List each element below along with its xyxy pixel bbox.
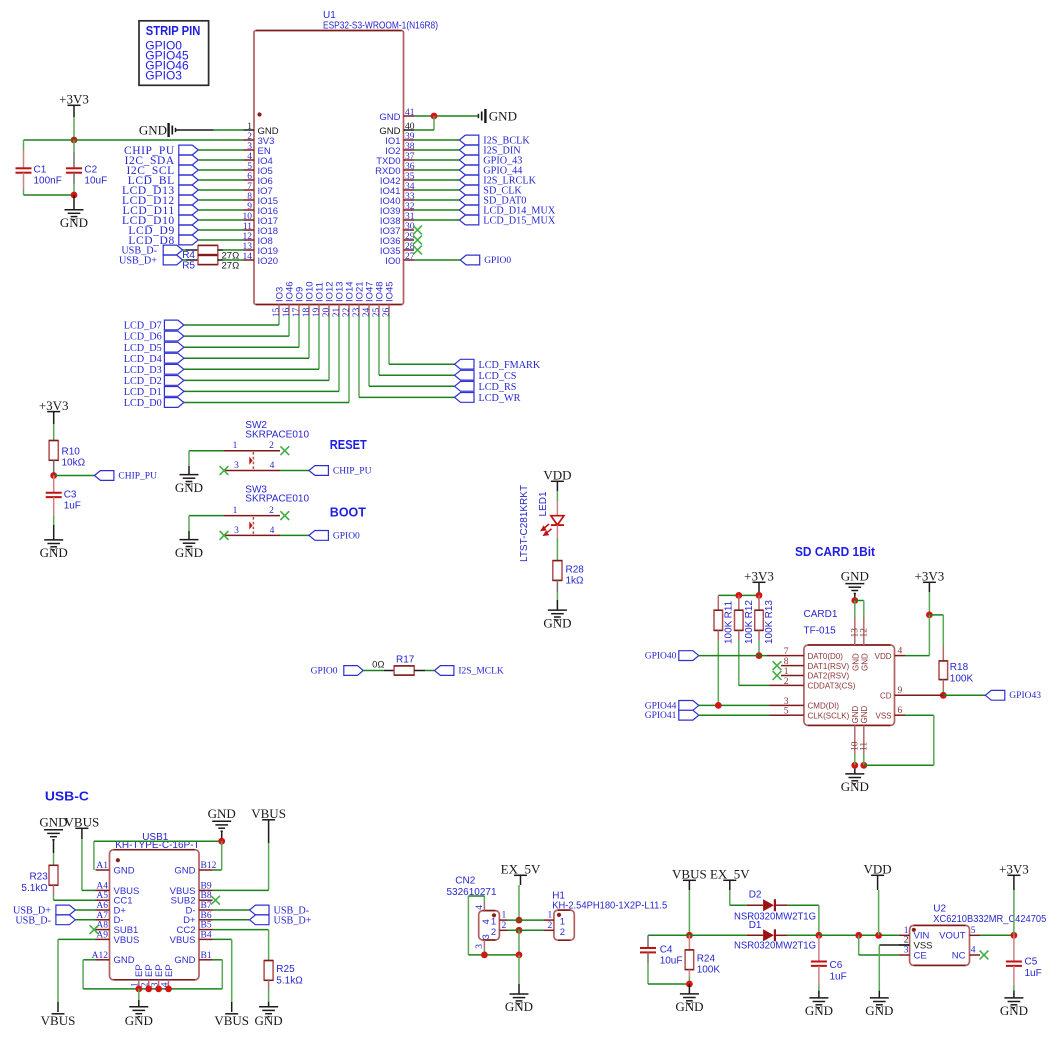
svg-text:LCD_D2: LCD_D2 — [124, 376, 162, 387]
svg-text:12: 12 — [243, 232, 253, 242]
svg-text:B4: B4 — [201, 930, 212, 940]
wire U1 pin 15 to LCD_D7 — [278, 316, 280, 326]
svg-text:4: 4 — [270, 461, 275, 471]
svg-text:SD CARD 1Bit: SD CARD 1Bit — [795, 545, 876, 559]
wire USB1 A9 to VBUS bottom — [58, 938, 96, 940]
svg-text:DAT0(D0): DAT0(D0) — [808, 652, 844, 661]
U2 pin 2 VSS — [899, 944, 910, 946]
global label CHIP_PU (R10 node) — [94, 471, 114, 481]
junction dot rail/R12 — [735, 592, 742, 599]
wire CARD1 CD to GPIO43 — [940, 694, 943, 696]
wire U1 to SD_CLK — [414, 189, 459, 191]
svg-text:3: 3 — [234, 461, 239, 471]
global label GPIO_43 — [459, 155, 479, 165]
svg-text:GND: GND — [841, 569, 869, 584]
svg-text:R17: R17 — [396, 654, 415, 665]
resistor R4 27ohm — [183, 249, 186, 251]
svg-text:GND: GND — [174, 955, 195, 966]
svg-text:17: 17 — [292, 307, 302, 317]
junction dot VBUS/D1/C4/R24 — [686, 932, 693, 939]
U1 pin 25 IO48 (bottom) — [378, 305, 380, 316]
global label LCD_D5 — [164, 342, 184, 352]
wire U1 pin 20 to LCD_D2 — [328, 316, 330, 381]
wire LCD_D13 to U1 pin 7 — [198, 189, 243, 191]
wire U1 to LCD_D14_MUX — [414, 209, 459, 211]
global label LCD_D0 — [164, 398, 184, 408]
bottom rail EP/GND — [83, 988, 222, 990]
svg-text:VBUS: VBUS — [65, 815, 100, 830]
svg-text:4: 4 — [475, 905, 485, 910]
svg-text:6: 6 — [247, 172, 252, 182]
svg-text:100K: 100K — [697, 965, 721, 976]
svg-text:GPIO40: GPIO40 — [645, 652, 677, 662]
resistor R24 100K — [688, 935, 690, 950]
svg-text:ESP32-S3-WROOM-1(N16R8): ESP32-S3-WROOM-1(N16R8) — [323, 20, 438, 31]
svg-text:4: 4 — [247, 152, 252, 162]
U1 pin 27 IO0 (right) — [404, 259, 415, 261]
resistor R25 5.1k — [264, 961, 273, 981]
svg-text:IO0: IO0 — [385, 256, 400, 267]
wire pullup rail — [718, 594, 759, 596]
svg-text:A9: A9 — [96, 930, 108, 940]
ground GND (R24) — [688, 984, 690, 994]
svg-text:LCD_WR: LCD_WR — [479, 393, 521, 404]
global label LCD_D9 -> U1 pin 11 — [179, 225, 199, 235]
global label USB_D+ (B6) — [250, 915, 270, 925]
wire LCD_D8 to U1 pin 12 — [198, 239, 243, 241]
wire U1 to I2S_BCLK — [414, 139, 459, 141]
svg-text:GND: GND — [39, 815, 67, 830]
svg-text:C6: C6 — [830, 960, 843, 971]
CARD1 pin 8 DAT1(RSV) — [790, 665, 804, 667]
svg-text:1: 1 — [904, 926, 909, 936]
svg-text:GPIO43: GPIO43 — [1009, 691, 1041, 701]
U2 pin 4 NC — [970, 954, 981, 956]
svg-text:D2: D2 — [749, 889, 762, 900]
ground GND (SW2) — [180, 475, 199, 485]
svg-text:1: 1 — [502, 911, 507, 921]
wire VBUS to USB1 B9 — [213, 889, 269, 891]
wire CN2 pin1 to H1 pin1 — [508, 919, 544, 921]
svg-text:LCD_D15_MUX: LCD_D15_MUX — [483, 216, 556, 227]
junction dot CN2 pin3/rail — [481, 952, 488, 959]
CARD1 pin 11 GND (bottom) — [863, 725, 865, 754]
svg-text:11: 11 — [859, 742, 869, 751]
wire R23 to USB1 CC1 — [54, 899, 96, 901]
svg-text:VBUS: VBUS — [170, 935, 196, 946]
USB1 pin A6 D+ — [96, 909, 110, 911]
global label GPIO0 -> U1 pin27 — [460, 255, 480, 265]
U1 pin 18 IO10 (bottom) — [308, 305, 310, 316]
svg-text:C4: C4 — [660, 945, 673, 956]
svg-text:22: 22 — [342, 307, 352, 317]
junction dot EP4 — [165, 986, 172, 993]
USB1 pin A1 GND — [96, 869, 110, 871]
ground GND (R28) — [548, 610, 567, 620]
svg-text:VDD: VDD — [875, 652, 892, 661]
svg-text:2: 2 — [560, 927, 565, 938]
junction dot C1/C2/GND — [71, 192, 78, 199]
wire USB1 B1 to bottom rail — [213, 959, 223, 961]
svg-text:38: 38 — [405, 142, 415, 152]
svg-text:CLK(SCLK): CLK(SCLK) — [808, 711, 850, 720]
global label GPIO43 — [985, 690, 1005, 700]
U1 pin 4 IO4 (left) — [244, 159, 255, 161]
global label CHIP_PU (SW2) — [309, 466, 329, 476]
svg-text:GND: GND — [40, 545, 68, 560]
global label LCD_D10 -> U1 pin 10 — [179, 215, 199, 225]
svg-text:VBUS: VBUS — [214, 1013, 249, 1028]
USB1 pin EP1 — [138, 980, 140, 989]
svg-text:1: 1 — [233, 506, 238, 516]
wire USB1 A1 to top GND — [93, 841, 95, 870]
svg-text:GND: GND — [114, 955, 135, 966]
global label LCD_CS — [455, 370, 475, 380]
wire U1 to LCD_CS — [378, 316, 380, 376]
svg-text:2: 2 — [904, 936, 909, 946]
svg-text:25: 25 — [372, 307, 382, 317]
svg-text:GND: GND — [805, 1003, 833, 1018]
junction dot D1/D2/C6 VDD node — [816, 932, 823, 939]
USB1 pin B12 GND — [199, 869, 213, 871]
svg-text:100K: 100K — [744, 620, 755, 644]
svg-text:1uF: 1uF — [64, 501, 81, 512]
svg-text:GND: GND — [175, 545, 203, 560]
wire LCD_D11 to U1 pin 9 — [198, 209, 243, 211]
wire U2 VSS to GND — [879, 944, 909, 946]
wire U1 pin 21 to LCD_D1 — [338, 316, 340, 392]
U1 pin 2 3V3 (left) — [244, 139, 255, 141]
ground GND (SW3) — [180, 540, 199, 550]
LED LED1 LTST-C281KRKT — [556, 501, 558, 516]
U1 pin 26 IO45 (bottom) — [388, 305, 390, 316]
resistor R18 100K — [929, 614, 943, 616]
svg-text:R13: R13 — [764, 600, 775, 619]
svg-text:VSS: VSS — [875, 711, 891, 720]
svg-text:19: 19 — [312, 307, 322, 317]
no-connect X — [413, 236, 422, 245]
svg-text:DAT1(RSV): DAT1(RSV) — [808, 662, 850, 671]
svg-text:CARD1: CARD1 — [804, 609, 838, 620]
U1 pin 40 GND (right) — [404, 129, 415, 131]
svg-text:A1: A1 — [96, 861, 108, 871]
svg-text:40: 40 — [405, 122, 415, 132]
U1 pin 37 TXD0 (right) — [404, 159, 415, 161]
global label SD_CLK — [459, 185, 479, 195]
svg-text:GND: GND — [505, 999, 533, 1014]
wire +3V3 to CARD1 VDD — [928, 615, 930, 656]
svg-text:4: 4 — [481, 919, 492, 924]
svg-text:23: 23 — [352, 307, 362, 317]
junction dot bottom GND pin10 — [851, 762, 858, 769]
global label SD_DAT0 — [459, 195, 479, 205]
no-connect X SW3 pin3 — [220, 531, 229, 540]
svg-text:GND: GND — [851, 706, 860, 724]
global label USB_D- (B7) — [250, 905, 270, 915]
svg-text:2: 2 — [548, 921, 553, 931]
wire U1 pin 17 to LCD_D5 — [298, 316, 300, 348]
U1 pin 24 IO47 (bottom) — [368, 305, 370, 316]
U1 pin 6 IO6 (left) — [244, 179, 255, 181]
svg-text:LCD_D5: LCD_D5 — [124, 343, 162, 354]
global label LCD_D4 — [164, 353, 184, 363]
USB1 pin B5 CC2 — [199, 929, 213, 931]
junction dot +3V3/R18 branch — [926, 612, 933, 619]
svg-text:33: 33 — [405, 192, 415, 202]
svg-text:GND: GND — [865, 1003, 893, 1018]
global label LCD_RS — [455, 381, 475, 391]
svg-text:CE: CE — [914, 950, 927, 961]
wire CE branch to U2 CE — [858, 935, 860, 955]
U1 pin 1 GND (left) — [244, 129, 255, 131]
U2 pin 3 CE — [899, 954, 910, 956]
junction dot R10/C3/CHIP_PU — [50, 472, 57, 479]
svg-text:B5: B5 — [201, 921, 212, 931]
svg-text:1kΩ: 1kΩ — [566, 576, 585, 587]
global label I2S_DIN — [459, 145, 479, 155]
svg-text:18: 18 — [302, 307, 312, 317]
ground GND (R25) — [259, 1007, 278, 1017]
wire GPIO44 to CARD1 CMD — [699, 704, 770, 706]
U2 pin 1 VIN — [899, 934, 910, 936]
svg-text:GPIO41: GPIO41 — [645, 711, 677, 721]
connector USB1 KH-TYPE-C-16P-T body — [110, 850, 200, 980]
capacitor C1 100nF — [23, 140, 25, 151]
global label LCD_D14_MUX — [459, 205, 479, 215]
svg-text:TF-015: TF-015 — [804, 626, 837, 637]
svg-text:LCD_D7: LCD_D7 — [124, 321, 162, 332]
junction dot R13/DAT0 — [756, 652, 763, 659]
svg-text:CHIP_PU: CHIP_PU — [333, 466, 372, 476]
svg-text:LTST-C281KRKT: LTST-C281KRKT — [519, 485, 530, 562]
svg-text:C2: C2 — [84, 165, 97, 176]
wire U1 to LCD_FMARK — [388, 316, 390, 365]
junction dot pin41/pin40 GND — [431, 113, 438, 120]
H1 pin 1 — [544, 919, 554, 921]
CARD1 pin 12 GND (top) — [863, 617, 865, 645]
svg-text:10: 10 — [243, 212, 253, 222]
svg-text:EX_5V: EX_5V — [501, 862, 541, 877]
wire VDD node to U2 VIN — [819, 934, 899, 936]
svg-text:B9: B9 — [201, 881, 212, 891]
wire U1 to LCD_WR — [358, 316, 360, 398]
svg-text:GND: GND — [60, 215, 88, 230]
svg-text:1uF: 1uF — [1025, 968, 1042, 979]
no-connect X USB1 A8 — [90, 925, 99, 934]
svg-text:B1: B1 — [201, 951, 212, 961]
USB1 pin A5 CC1 — [96, 899, 110, 901]
power flag VBUS (bottom right) — [225, 1013, 238, 1015]
svg-text:GND: GND — [543, 615, 571, 630]
U1 pin 29 IO36 (right) — [404, 239, 415, 241]
wire U2 VOUT to +3V3 — [980, 934, 1014, 936]
svg-text:+3V3: +3V3 — [59, 92, 89, 107]
global label LCD_D2 — [164, 376, 184, 386]
wire USB1 A12 to bottom rail — [83, 959, 95, 961]
svg-text:USB-C: USB-C — [45, 790, 89, 804]
junction dot node 3V3/C1/C2 — [71, 137, 78, 144]
wire CHIP_PU to U1 pin 3 — [198, 149, 243, 151]
U1 pin 31 IO38 (right) — [404, 219, 415, 221]
junction dot R11/CMD — [715, 702, 722, 709]
wire GND flag to U1 pin1 — [176, 129, 214, 131]
svg-text:NC: NC — [952, 950, 966, 961]
svg-text:A4: A4 — [96, 881, 108, 891]
svg-text:GND: GND — [379, 112, 400, 123]
svg-text:USB_D-: USB_D- — [15, 915, 51, 926]
U1 pin 10 IO17 (left) — [244, 219, 255, 221]
U2 pin 5 VOUT — [970, 934, 981, 936]
svg-text:B8: B8 — [201, 891, 212, 901]
resistor R13 100K — [758, 595, 760, 610]
U1 pin 3 EN (left) — [244, 149, 255, 151]
svg-text:CDDAT3(CS): CDDAT3(CS) — [808, 682, 856, 691]
global label LCD_D13 -> U1 pin 7 — [179, 185, 199, 195]
USB1 pin A4 VBUS — [96, 889, 110, 891]
ground GND (decoupling) — [73, 195, 75, 210]
svg-text:4: 4 — [270, 526, 275, 536]
wire CN2 pin2 to H1 pin2 — [508, 929, 544, 931]
global label USB_D- -> R4 — [163, 245, 183, 255]
svg-text:10uF: 10uF — [84, 176, 107, 187]
U1 pin 5 IO5 (left) — [244, 169, 255, 171]
svg-text:3: 3 — [234, 526, 239, 536]
svg-text:C1: C1 — [34, 165, 47, 176]
global label GPIO_44 — [459, 165, 479, 175]
wire U1 pin41 to GND flag — [414, 115, 478, 117]
svg-text:A7: A7 — [96, 911, 108, 921]
global label I2S_LRCLK — [459, 175, 479, 185]
svg-text:LCD_D1: LCD_D1 — [124, 387, 162, 398]
wire GND to CARD1 pin13 — [854, 601, 856, 618]
resistor R10 10k — [49, 441, 58, 461]
wire VBUS to USB1 A4 — [82, 889, 96, 891]
wire D2 cathode down to VDD node — [818, 905, 820, 935]
svg-text:R28: R28 — [566, 565, 585, 576]
svg-text:GPIO0: GPIO0 — [484, 256, 511, 266]
svg-text:GND: GND — [841, 779, 869, 794]
CARD1 pin 7 DAT0(D0) — [790, 655, 804, 657]
svg-text:LCD_RS: LCD_RS — [479, 382, 517, 393]
junction dot R18/CD — [940, 692, 947, 699]
capacitor C2 10uF — [73, 140, 75, 152]
wire GPIO40 to CARD1 DAT0 — [699, 655, 767, 657]
resistor R17 0ohm — [363, 670, 384, 672]
svg-text:B7: B7 — [201, 901, 212, 911]
svg-text:SKRPACE010: SKRPACE010 — [245, 429, 309, 440]
svg-text:2: 2 — [247, 132, 252, 142]
global label USB_D+ (A6) — [56, 905, 76, 915]
svg-text:36: 36 — [405, 162, 415, 172]
svg-text:0Ω: 0Ω — [372, 659, 384, 670]
wire R12 to CARD1 CS pin2 — [739, 684, 770, 686]
svg-text:USB_D+: USB_D+ — [119, 256, 157, 267]
wire SW2 pin1 to GND — [189, 450, 224, 452]
global label LCD_FMARK — [455, 359, 475, 369]
connector CN2 532610271 body — [479, 911, 500, 940]
resistor R5 27ohm — [183, 259, 186, 261]
wire USB1 B12 to top GND — [213, 869, 222, 871]
svg-text:3: 3 — [904, 946, 909, 956]
wire U1 to GPIO_44 — [414, 169, 459, 171]
resistor R12 100K — [738, 595, 740, 610]
regulator U2 XC6210B332MR_C424705 body — [910, 925, 970, 965]
U1 pin 32 IO39 (right) — [404, 209, 415, 211]
U1 pin 16 IO46 (bottom) — [288, 305, 290, 316]
USB1 pin A8 SUB1 — [96, 929, 110, 931]
diode D1 NSR0320MW2T1G — [689, 934, 747, 936]
ground GND (CN2) — [518, 955, 520, 984]
resistor R11 100K — [717, 595, 719, 610]
U1 pin 15 IO3 (bottom) — [278, 305, 280, 316]
CARD1 pin 10 GND (bottom) — [854, 725, 856, 754]
CARD1 pin 2 CDDAT3(CS) — [790, 684, 804, 686]
global label LCD_D11 -> U1 pin 9 — [179, 205, 199, 215]
junction dot VDD flag — [875, 932, 882, 939]
wire C1 bottom to GND node — [24, 194, 75, 196]
svg-text:GPIO0: GPIO0 — [333, 531, 360, 541]
global label LCD_BL -> U1 pin 6 — [179, 175, 199, 185]
global label I2S_MCLK — [434, 666, 454, 676]
svg-text:LCD_D0: LCD_D0 — [124, 398, 162, 409]
CN2 pin 4 (top) — [483, 903, 485, 911]
svg-text:3: 3 — [475, 944, 485, 949]
wire LCD_D12 to U1 pin 8 — [198, 199, 243, 201]
svg-text:11: 11 — [243, 222, 252, 232]
wire USB1 B5 CC2 to R25 — [213, 929, 269, 931]
svg-text:R25: R25 — [276, 964, 295, 975]
U1 pin 28 IO35 (right) — [404, 249, 415, 251]
global label LCD_WR — [455, 393, 475, 403]
U1 pin 13 IO19 (left) — [244, 249, 255, 251]
U1 pin 23 IO21 (bottom) — [358, 305, 360, 316]
svg-text:C3: C3 — [64, 490, 77, 501]
svg-text:100nF: 100nF — [34, 176, 62, 187]
svg-text:5: 5 — [247, 162, 252, 172]
svg-text:10kΩ: 10kΩ — [62, 458, 86, 469]
svg-text:B6: B6 — [201, 911, 212, 921]
wire U1 pin 22 to LCD_D0 — [348, 316, 350, 403]
svg-text:GND: GND — [125, 1013, 153, 1028]
svg-text:SKRPACE010: SKRPACE010 — [245, 494, 309, 505]
svg-text:EX_5V: EX_5V — [710, 867, 750, 882]
svg-text:8: 8 — [247, 192, 252, 202]
wire SW3 pin1 to GND — [189, 515, 224, 517]
svg-text:LCD_D6: LCD_D6 — [124, 332, 162, 343]
svg-text:R11: R11 — [723, 600, 734, 618]
svg-text:3: 3 — [247, 142, 252, 152]
diode D2 NSR0320MW2T1G — [730, 904, 747, 906]
wire junction down to U1 pin40 — [433, 116, 435, 130]
global label LCD_D7 — [164, 320, 184, 330]
CARD1 pin 5 CLK(SCLK) — [790, 714, 804, 716]
junction dot pin2 row — [516, 927, 523, 934]
global label USB_D- (A7) — [56, 915, 76, 925]
svg-text:I2S_MCLK: I2S_MCLK — [458, 666, 504, 676]
junction dot EP3 — [155, 986, 162, 993]
svg-text:41: 41 — [405, 108, 415, 118]
U1 pin 12 IO8 (left) — [244, 239, 255, 241]
svg-text:37: 37 — [405, 152, 415, 162]
no-connect X SW3 pin2 — [280, 511, 289, 520]
svg-text:GND: GND — [1000, 1003, 1028, 1018]
svg-text:C5: C5 — [1025, 957, 1038, 968]
wire U1 to SD_DAT0 — [414, 199, 459, 201]
H1 pin 2 — [544, 929, 554, 931]
svg-text:LCD_D3: LCD_D3 — [124, 365, 162, 376]
wire CN2 pin3 to rail — [483, 949, 485, 955]
U1 pin 36 RXD0 (right) — [404, 169, 415, 171]
